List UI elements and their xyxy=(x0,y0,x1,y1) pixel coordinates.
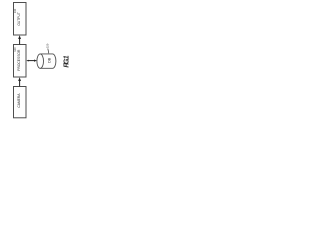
reference numeral 130 xyxy=(13,8,17,13)
wire processor to output xyxy=(19,38,21,44)
wire processor to database (double arrow) xyxy=(28,60,36,62)
svg-text:DB: DB xyxy=(48,57,52,63)
block PROCESSOR xyxy=(14,45,27,78)
svg-text:FIG. 1: FIG. 1 xyxy=(64,55,71,67)
database cylinder body xyxy=(40,54,56,68)
svg-text:PROCESSOR: PROCESSOR xyxy=(17,49,21,71)
arrowhead into processor (left) xyxy=(26,60,28,62)
svg-text:130: 130 xyxy=(13,8,17,13)
arrowhead into output xyxy=(18,35,21,39)
block OUTPUT xyxy=(14,3,27,36)
database cylinder left ellipse xyxy=(37,54,44,68)
svg-text:CAMERA: CAMERA xyxy=(17,93,21,108)
reference numeral 120 xyxy=(13,47,17,52)
label CAMERA xyxy=(17,93,21,108)
wire camera to processor xyxy=(19,80,21,86)
svg-text:150: 150 xyxy=(46,43,50,48)
arrowhead into database (right) xyxy=(34,59,37,61)
database label DB xyxy=(48,57,52,63)
label OUTPUT xyxy=(17,12,21,26)
figure caption FIG. 1 xyxy=(64,55,71,67)
block CAMERA xyxy=(14,87,27,118)
reference numeral 150 with leader xyxy=(46,43,50,53)
label PROCESSOR xyxy=(17,49,21,71)
arrowhead into processor xyxy=(18,77,21,81)
svg-text:120: 120 xyxy=(13,47,17,52)
svg-text:OUTPUT: OUTPUT xyxy=(17,12,21,26)
